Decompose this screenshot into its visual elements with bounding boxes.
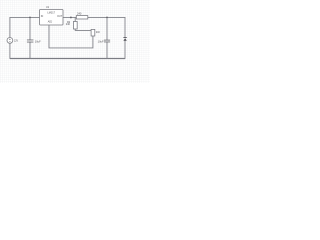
svg-text:10uF: 10uF: [35, 39, 41, 43]
svg-text:12V: 12V: [14, 41, 19, 43]
svg-text:240: 240: [77, 11, 82, 15]
svg-text:IN: IN: [41, 15, 44, 18]
svg-text:240: 240: [66, 23, 71, 26]
svg-text:10uF: 10uF: [98, 39, 104, 43]
svg-text:ADJ: ADJ: [48, 21, 53, 24]
svg-text:LM317: LM317: [47, 11, 55, 14]
svg-text:OUT: OUT: [57, 15, 63, 18]
